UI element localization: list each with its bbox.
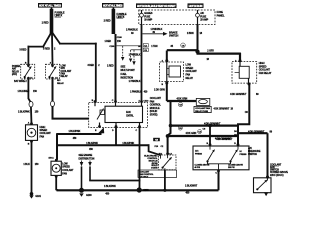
gages fuse [140,10,153,25]
svg-text:2: 2 [98,64,100,67]
wire right relay down and over to module [53,79,90,119]
a/c pressure switch box [193,138,261,175]
svg-text:450: 450 [186,191,190,194]
svg-text:COOLANT: COOLANT [61,70,72,73]
arrow module pin E to line1 [98,127,104,133]
wire module pin C down to splice [139,128,141,191]
see-reference dashed arrow on gages wire [132,50,135,65]
svg-text:150: 150 [35,111,39,114]
right relay dashed box (contacts) [46,63,72,85]
see-reference dashed arrow 1 [121,46,124,61]
low speed coolant fan relay (coil) [160,51,198,86]
svg-text:2: 2 [54,48,56,51]
svg-text:89: 89 [270,130,273,133]
connector oval on motor1 wire [29,102,33,107]
svg-text:1 BLK/PNK: 1 BLK/PNK [86,142,98,145]
wire down to pressure switch pin B [209,126,211,146]
svg-text:1 PNK/BLK: 1 PNK/BLK [129,53,141,56]
svg-text:40 PSI: 40 PSI [195,166,201,169]
fusible link B (center) [104,8,127,34]
svg-text:PRESS: PRESS [240,154,248,156]
svg-text:2 RED: 2 RED [104,20,111,23]
svg-text:C8: C8 [203,128,206,130]
svg-text:FAN: FAN [61,73,66,76]
svg-text:1 RED: 1 RED [107,64,114,67]
svg-text:RELAY: RELAY [61,75,69,78]
wire from fusible link B down to module [115,34,117,103]
svg-text:C100: C100 [109,46,115,48]
wire relay1 bottom down to bus B [166,82,168,102]
svg-text:C410: C410 [143,99,149,102]
svg-text:1 PNK/BLK: 1 PNK/BLK [151,28,163,31]
junction dot on bus1 [208,124,212,128]
fuse panel dashed box [139,10,215,25]
svg-text:G100: G100 [86,194,92,197]
ground G100 on bus [79,188,92,197]
svg-text:B: B [207,143,209,145]
wire left relay down to motor1 [28,79,31,124]
svg-text:DISTRIBUTION: DISTRIBUTION [79,158,95,161]
svg-text:B: B [92,100,94,102]
svg-text:F10: F10 [155,146,159,148]
wire branch down from bus B [168,101,171,154]
svg-text:1 BLK/PNK: 1 BLK/PNK [104,185,116,188]
svg-text:ANT: ANT [12,68,17,71]
svg-text:HOT AT ALL TIMES: HOT AT ALL TIMES [103,4,123,8]
svg-text:18: 18 [207,59,210,61]
svg-text:1 BLK/PNK: 1 BLK/PNK [69,130,81,133]
coolant fan motor 2 [48,157,74,178]
svg-text:PRESS: PRESS [195,153,203,155]
svg-text:HI: HI [240,151,242,153]
see-reference dashed arrow 2 [129,50,132,62]
svg-text:B: B [28,144,30,146]
svg-text:RELAY: RELAY [186,77,194,80]
svg-text:25 AMP: 25 AMP [200,19,208,22]
wire gages fuse down to module [141,25,143,103]
svg-text:A: A [138,99,140,102]
branch arrow to brake switch [143,28,179,38]
svg-text:2 GRY: 2 GRY [207,49,214,52]
svg-text:4 DK GRN/WHT: 4 DK GRN/WHT [248,130,265,133]
wire relay2 bottom down (Z) to pressure switch [238,83,249,146]
svg-text:450: 450 [89,148,93,151]
svg-text:150: 150 [35,163,39,166]
svg-text:18: 18 [231,109,234,111]
ground G101 [29,192,41,199]
header HOT IN RUN BULB TEST OR START [136,3,177,8]
high speed coolant fan relay (coil) [232,53,272,86]
svg-text:CNTRL: CNTRL [126,115,134,118]
svg-text:C: C [136,130,138,132]
bus B horizontal [167,100,197,102]
svg-text:4 DK GRN: 4 DK GRN [186,132,197,135]
wire left branch horizontal [28,46,45,48]
svg-text:10 AMP: 10 AMP [144,19,152,22]
svg-text:39: 39 [131,32,134,35]
svg-text:D8: D8 [234,131,237,133]
svg-text:410: 410 [144,91,148,94]
svg-text:1 PNK/BLK: 1 PNK/BLK [129,80,141,83]
coolant fan low speed switch [254,163,289,196]
svg-text:3 RED: 3 RED [19,48,26,51]
svg-text:G101: G101 [35,195,41,198]
svg-text:FAN RELAY: FAN RELAY [259,72,272,75]
svg-text:SEE: SEE [121,65,126,68]
svg-text:150 A: 150 A [48,157,54,160]
svg-text:BAT WIRE 2: BAT WIRE 2 [14,80,27,83]
svg-text:450: 450 [73,137,77,140]
note SEE MULTI-PORT FUEL INJECTION [121,65,136,79]
svg-text:C100: C100 [117,37,123,39]
svg-text:STATE): STATE) [150,114,158,117]
svg-text:1 BRN: 1 BRN [187,32,194,35]
svg-text:RELAY: RELAY [12,70,20,73]
svg-text:S208: S208 [143,189,149,192]
see engine distribution note + arrows [79,154,95,189]
in-line fuse coolant fan [194,98,234,113]
branch line to see-reference arrows [117,45,141,47]
wire down to left relay [27,46,29,65]
svg-text:SPD: SPD [61,68,66,70]
svg-text:220 F (104 C): 220 F (104 C) [270,174,284,177]
header HOT IN RUN [188,3,204,8]
svg-text:POWER: POWER [12,66,21,68]
svg-text:C: C [215,172,217,174]
svg-text:C: C [112,100,114,102]
svg-text:D: D [112,130,114,132]
svg-text:SWITCH: SWITCH [248,153,257,156]
svg-text:STATE: STATE [151,167,158,170]
connector oval on right relay wire [51,101,55,106]
callout box below ECM [138,170,177,179]
bus1 4 DK GRN/WHT horizontal [170,124,239,126]
svg-text:HOT IN RUN, BULB TEST OR START: HOT IN RUN, BULB TEST OR START [137,4,176,8]
svg-text:450: 450 [105,193,109,196]
main ground bus [57,189,219,191]
wire ECM down to bus [164,170,166,191]
svg-text:1 PNK/BLK: 1 PNK/BLK [130,91,142,94]
svg-text:A/C: A/C [195,150,199,153]
svg-text:LOW: LOW [61,65,67,67]
svg-text:4 DK GRN: 4 DK GRN [177,98,188,101]
svg-text:C8: C8 [245,111,249,114]
wire Y-split below fusible link A [43,33,60,47]
svg-text:1 RED: 1 RED [42,21,49,24]
svg-text:1 RED: 1 RED [104,40,111,43]
wire center down to coolant fan relay contacts [51,34,54,65]
svg-text:PANEL: PANEL [217,14,225,17]
svg-text:1 BLK/RED: 1 BLK/RED [17,90,29,93]
fusible link A (left) [42,8,65,34]
svg-text:A: A [28,121,30,124]
wire bus corner up to pressure switch pin C [218,170,220,191]
line2 corner down to ECM [149,144,161,155]
wire line1 corner down to motor2 [56,133,58,160]
svg-text:D: D [234,143,236,145]
svg-text:FAN: FAN [126,111,131,114]
svg-text:4 DK GRN/WHT: 4 DK GRN/WHT [204,122,221,125]
svg-text:A/T ONLY: A/T ONLY [140,176,149,179]
svg-text:4 DK GRN/WHT: 4 DK GRN/WHT [214,108,230,111]
bus A horizontal [167,49,198,51]
svg-text:B: B [162,84,164,86]
coolant fan control module dashed box [89,97,162,132]
svg-text:3 RED: 3 RED [43,48,50,51]
svg-text:CLOSED ABOVE: CLOSED ABOVE [195,164,210,167]
svg-text:RELAY FUSE: RELAY FUSE [195,110,208,113]
svg-text:150: 150 [117,40,121,43]
svg-text:FUEL: FUEL [121,73,128,76]
svg-text:150: 150 [33,90,37,93]
svg-text:3 RED: 3 RED [87,64,94,67]
svg-text:A: A [235,59,237,62]
header HOT AT ALL TIMES (left) [38,3,62,8]
svg-text:35: 35 [171,45,174,48]
line1 horizontal 1 BLK/PNK [57,133,102,135]
a/c fuse [196,10,209,25]
svg-text:SWITCH: SWITCH [169,35,179,38]
wire module pin D down to line2 [115,128,117,146]
svg-text:(A/C): (A/C) [12,73,17,76]
svg-text:E: E [95,130,97,132]
svg-text:FAN: FAN [62,172,67,175]
left relay dashed box (contacts) [12,63,35,83]
svg-text:4 DK GRN/WHT: 4 DK GRN/WHT [216,138,233,141]
svg-text:1 BLK/PNK: 1 BLK/PNK [18,111,30,114]
wire motor2 down to main bus [56,175,58,190]
svg-text:CLOSED ABOVE: CLOSED ABOVE [228,164,243,167]
splice tag [153,138,160,141]
svg-text:1 BLK/PNK: 1 BLK/PNK [122,142,134,145]
svg-text:MULTI-PORT: MULTI-PORT [121,69,136,72]
svg-text:COOLANT FAN: COOLANT FAN [195,107,210,110]
svg-text:233 PSI: 233 PSI [228,167,235,169]
svg-text:FAN: FAN [40,135,45,138]
svg-text:1 BLK/WHT: 1 BLK/WHT [185,185,198,188]
ECM dashed box [144,152,176,169]
wire down to low speed switch [267,133,269,178]
splice S208 on bus [137,187,142,192]
wire a/c fuse down to bus A [197,25,199,51]
svg-text:1 DK GRN: 1 DK GRN [154,88,165,91]
coolant fan motor 1 [26,121,52,145]
circled C8 below bus B [178,102,182,106]
svg-text:18: 18 [200,32,203,35]
junction on bus A [195,50,199,54]
svg-text:89: 89 [256,93,259,96]
bus2 4 DK GRN horizontal [167,135,239,137]
svg-text:HOT AT ALL TIMES: HOT AT ALL TIMES [39,4,61,8]
svg-text:A/C: A/C [57,79,61,82]
wire motor1 down to ground [31,140,33,193]
svg-text:HOT IN RUN: HOT IN RUN [189,4,203,8]
svg-text:4 DK GRN/WHT: 4 DK GRN/WHT [230,93,247,96]
ECM line horizontal [89,180,140,182]
svg-text:C2: C2 [161,146,164,148]
line2 horizontal 1 BLK/PNK [56,144,150,146]
wire down from right branch to module [95,43,97,103]
svg-text:1 BLK: 1 BLK [23,163,30,166]
svg-text:1 TAN: 1 TAN [151,45,158,48]
svg-text:RELAY: RELAY [57,82,64,85]
header HOT AT ALL TIMES (center) [102,3,124,8]
wire right branch horizontal [59,43,97,45]
